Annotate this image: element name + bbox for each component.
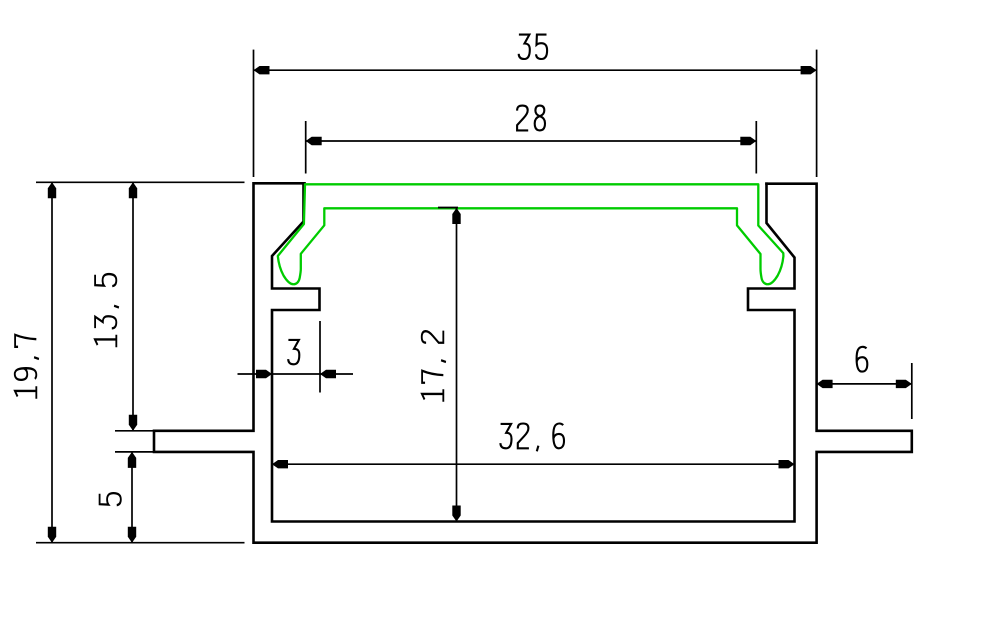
dimension 5: bottom arrow xyxy=(128,527,136,543)
green PC cover outline xyxy=(278,184,784,284)
dimension 35: left arrow xyxy=(254,66,270,74)
dimension 35: line xyxy=(254,69,817,71)
dimension 17,2: line xyxy=(456,208,458,522)
dimension 13,5: line xyxy=(132,182,134,430)
dimension 28: right extension line xyxy=(755,121,757,174)
dimension 6: right arrow xyxy=(896,380,912,388)
dimension 3: text xyxy=(288,340,299,364)
bottom horizontal extension line (left, y=542) xyxy=(36,542,245,544)
dimension 32,6: line xyxy=(272,463,795,465)
dimension 5: top arrow xyxy=(128,452,136,468)
dimension 28: right arrow xyxy=(740,137,756,145)
dimension 6: text xyxy=(857,347,868,372)
dimension 13,5: top arrow xyxy=(129,182,137,198)
flange bottom extension line xyxy=(115,451,154,453)
dimension 19,7: bottom arrow xyxy=(48,527,56,543)
dimension 6: left arrow xyxy=(817,380,833,388)
aluminum profile inner outline (lips, ledges, cavity) xyxy=(272,183,795,521)
dimension 35: right arrow xyxy=(801,66,817,74)
dimension 13,5: text xyxy=(95,274,119,347)
dimension 6: line xyxy=(817,383,912,385)
dimension 13,5: bottom arrow xyxy=(129,415,137,431)
dimension 3: right arrow (outside, pointing left) xyxy=(320,370,336,378)
dimension 5: line xyxy=(131,452,133,543)
dimension 32,6: left arrow xyxy=(272,460,288,468)
flange top extension line xyxy=(115,430,154,432)
dimension 17,2: top tick extension xyxy=(438,207,458,209)
dimension 17,2: bottom arrow xyxy=(452,506,460,522)
dimension 28: left extension line xyxy=(305,121,307,174)
dimension 3: extension line xyxy=(319,321,321,393)
dimension 3: left arrow (outside, pointing right) xyxy=(256,370,272,378)
dimension 32,6: right arrow xyxy=(779,460,795,468)
top horizontal extension line (left, y=182) xyxy=(36,181,245,183)
dimension 28: line xyxy=(306,140,757,142)
dimension 28: text xyxy=(517,106,545,131)
aluminum profile outer outline xyxy=(154,183,912,542)
dimension 5: text xyxy=(100,493,121,505)
dimension 6: extension line xyxy=(911,363,913,419)
dimension 17,2: text xyxy=(422,331,446,402)
dimension 17,2: top arrow xyxy=(452,208,460,224)
dimension 35: left extension line xyxy=(253,50,255,177)
dimension 35: right extension line xyxy=(816,50,818,177)
dimension 32,6: text xyxy=(500,424,564,452)
dimension 35: text xyxy=(519,35,547,59)
dimension 19,7: top arrow xyxy=(48,182,56,198)
dimension 3: line xyxy=(238,373,354,375)
dimension 28: left arrow xyxy=(306,137,322,145)
dimension 19,7: text xyxy=(15,335,39,399)
dimension 19,7: line xyxy=(51,182,53,542)
